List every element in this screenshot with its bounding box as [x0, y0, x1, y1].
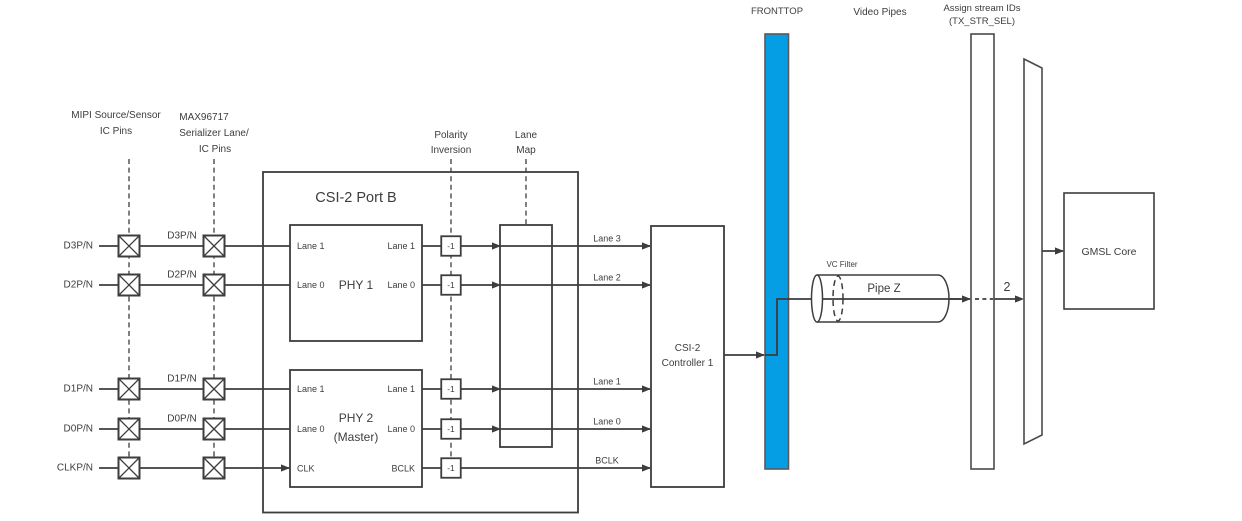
svg-text:Lane: Lane	[515, 130, 538, 141]
svg-text:Lane 1: Lane 1	[297, 384, 325, 394]
svg-text:(Master): (Master)	[334, 430, 379, 444]
svg-text:-1: -1	[447, 241, 455, 251]
svg-text:D2P/N: D2P/N	[167, 270, 196, 281]
svg-text:CSI-2: CSI-2	[675, 343, 701, 354]
svg-text:Map: Map	[516, 145, 536, 156]
svg-text:Lane 0: Lane 0	[387, 424, 415, 434]
svg-text:BCLK: BCLK	[391, 464, 415, 474]
svg-text:Lane 2: Lane 2	[593, 273, 621, 283]
svg-text:FRONTTOP: FRONTTOP	[751, 6, 803, 17]
svg-text:GMSL Core: GMSL Core	[1081, 246, 1136, 258]
svg-text:Lane 1: Lane 1	[297, 241, 325, 251]
svg-text:Serializer Lane/: Serializer Lane/	[179, 128, 249, 139]
svg-text:VC Filter: VC Filter	[826, 260, 857, 269]
svg-text:Controller 1: Controller 1	[662, 358, 714, 369]
svg-text:-1: -1	[447, 384, 455, 394]
svg-text:(TX_STR_SEL): (TX_STR_SEL)	[949, 16, 1015, 27]
svg-text:BCLK: BCLK	[595, 456, 619, 466]
svg-text:Pipe Z: Pipe Z	[867, 283, 900, 295]
svg-text:D1P/N: D1P/N	[64, 384, 93, 395]
svg-text:Assign stream IDs: Assign stream IDs	[943, 3, 1020, 14]
svg-text:MAX96717: MAX96717	[179, 112, 229, 123]
svg-text:D0P/N: D0P/N	[167, 414, 196, 425]
svg-text:-1: -1	[447, 424, 455, 434]
svg-text:CLK: CLK	[297, 464, 315, 474]
svg-text:D0P/N: D0P/N	[64, 424, 93, 435]
svg-text:IC Pins: IC Pins	[199, 144, 231, 155]
svg-text:Lane 3: Lane 3	[593, 234, 621, 244]
svg-text:D2P/N: D2P/N	[64, 280, 93, 291]
svg-text:Inversion: Inversion	[431, 145, 472, 156]
svg-text:Polarity: Polarity	[434, 130, 467, 141]
svg-text:Lane 0: Lane 0	[593, 417, 621, 427]
svg-text:Lane 1: Lane 1	[387, 241, 415, 251]
svg-text:CSI-2 Port B: CSI-2 Port B	[315, 190, 396, 206]
svg-text:Lane 1: Lane 1	[593, 377, 621, 387]
svg-text:Video Pipes: Video Pipes	[853, 7, 906, 18]
svg-text:MIPI Source/Sensor: MIPI Source/Sensor	[71, 110, 161, 121]
svg-text:-1: -1	[447, 463, 455, 473]
svg-text:-1: -1	[447, 280, 455, 290]
svg-text:Lane 0: Lane 0	[297, 280, 325, 290]
svg-text:Lane 0: Lane 0	[297, 424, 325, 434]
svg-text:2: 2	[1004, 280, 1011, 294]
svg-text:PHY 1: PHY 1	[339, 278, 374, 292]
svg-text:IC Pins: IC Pins	[100, 126, 132, 137]
svg-text:CLKP/N: CLKP/N	[57, 463, 93, 474]
svg-text:PHY 2: PHY 2	[339, 411, 374, 425]
svg-text:D3P/N: D3P/N	[64, 241, 93, 252]
svg-text:D3P/N: D3P/N	[167, 231, 196, 242]
svg-text:Lane 0: Lane 0	[387, 280, 415, 290]
svg-text:D1P/N: D1P/N	[167, 374, 196, 385]
svg-text:Lane 1: Lane 1	[387, 384, 415, 394]
